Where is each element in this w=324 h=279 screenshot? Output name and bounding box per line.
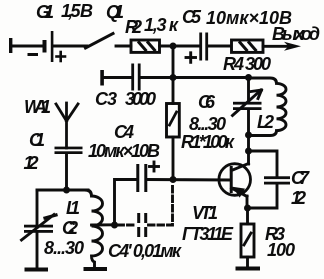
capacitor C7 branch [249,151,291,208]
node B (base junction) [170,176,177,183]
svg-text:ГТ311Е: ГТ311Е [182,224,234,244]
label plus C5 [186,53,196,63]
node (tank2 bottom) [245,132,252,139]
wire [102,76,132,79]
svg-text:L1: L1 [66,198,80,218]
inductor L1 [86,190,103,267]
node (C3 junction) [170,74,177,81]
svg-text:1,3 к: 1,3 к [144,15,179,35]
resistor R4 [232,40,264,52]
wire (node column down) [172,46,175,104]
wire [115,180,137,226]
output wire and arrow [263,45,292,48]
capacitor C4 [136,164,147,192]
svg-text:C2: C2 [62,218,78,238]
svg-text:R2: R2 [125,17,142,37]
wire (collector column) [247,135,250,164]
node (emitter) [244,205,251,212]
battery G1 positive plate [51,31,54,62]
capacitor C2 variable [22,190,57,268]
resistor R2 [131,40,160,52]
svg-text:C1: C1 [29,130,45,150]
svg-text:WA1: WA1 [24,97,51,117]
svg-text:C7: C7 [291,168,310,188]
svg-text:Выход: Выход [272,24,320,44]
svg-text:12: 12 [24,153,39,173]
resistor R3 [241,208,254,267]
chassis terminal (battery minus) [9,38,12,53]
svg-text:1,5 В: 1,5 В [61,1,93,21]
wire (base) [148,178,231,181]
svg-text:3000: 3000 [125,89,156,109]
svg-text:R1*100к: R1*100к [181,132,235,152]
ground (L1) [84,267,108,271]
capacitor C1 [55,147,83,154]
chassis terminal (C3 left) [100,70,104,86]
wire [141,76,249,79]
capacitor C3 [131,64,140,91]
wire [11,45,43,48]
inductor L2 [249,78,287,136]
wire (tap) [92,223,115,226]
node A (L1 tap) [111,222,118,229]
svg-text:100: 100 [267,240,295,260]
capacitor C4' dashed [118,184,173,226]
antenna WA1 [56,103,78,148]
svg-text:L2: L2 [257,112,274,132]
wire (tank top) [37,189,88,192]
svg-text:C4' 0,01мк: C4' 0,01мк [108,241,182,261]
node (tank2 top) [245,74,252,81]
label plus C4 [150,162,159,171]
svg-text:R4 300: R4 300 [223,54,271,74]
svg-text:C3: C3 [95,89,117,109]
wire [208,45,231,48]
wire [116,45,131,48]
svg-text:VT1: VT1 [192,203,218,223]
svg-text:C4: C4 [114,122,134,142]
svg-text:8...30: 8...30 [189,114,226,134]
capacitor C5 [199,33,208,61]
svg-text:12: 12 [291,188,306,208]
svg-text:G1: G1 [36,2,54,22]
ground (C2) [25,268,49,272]
wire [160,45,201,48]
node (C7 top) [245,148,252,155]
ground (R3) [236,267,261,271]
svg-text:C5: C5 [182,7,202,27]
wire [65,153,68,190]
wire [172,137,175,180]
node (tank top) [63,187,70,194]
wire [53,45,87,48]
svg-text:Q1: Q1 [106,2,124,22]
resistor R1 [167,104,180,138]
node (R2/C5) [170,43,177,50]
capacitor C6 variable [233,78,262,136]
svg-text:C6: C6 [198,92,216,112]
label minus [29,53,37,56]
label plus [57,52,66,61]
battery G1 negative plate [43,40,47,53]
svg-text:10мк×10В: 10мк×10В [88,141,160,161]
switch Q1 lever [86,34,114,49]
svg-text:8...30: 8...30 [44,238,84,258]
transistor VT1 [219,164,251,209]
